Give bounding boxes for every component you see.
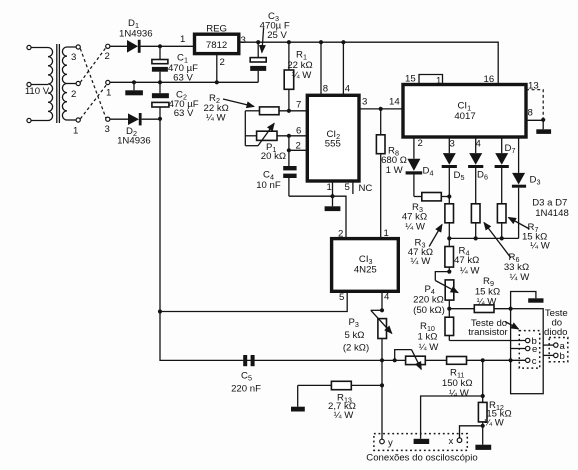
wire pin6 to pin2 link bbox=[288, 136, 290, 151]
regulator REG 7812 bbox=[180, 24, 246, 68]
input terminal 2 bbox=[105, 44, 110, 62]
svg-text:¼ W: ¼ W bbox=[510, 272, 531, 283]
svg-text:Conexões do osciloscópio: Conexões do osciloscópio bbox=[366, 452, 477, 463]
svg-text:D4: D4 bbox=[423, 166, 434, 178]
node R3 D5 junction bbox=[447, 194, 451, 198]
svg-text:(2 kΩ): (2 kΩ) bbox=[343, 343, 369, 354]
svg-text:47 kΩ: 47 kΩ bbox=[454, 255, 479, 266]
svg-text:1N4936: 1N4936 bbox=[117, 136, 151, 147]
wire to osc ground bbox=[421, 396, 483, 439]
wire C4 to CI3 pin2 bbox=[289, 196, 346, 238]
transformer T1 secondary winding bbox=[62, 47, 76, 120]
wire D4 to R3 bbox=[414, 196, 422, 198]
wire CI3 pin4 bbox=[381, 291, 383, 310]
svg-text:1: 1 bbox=[384, 228, 389, 239]
svg-text:5 kΩ: 5 kΩ bbox=[345, 330, 365, 341]
wire P3 to terminal y bbox=[381, 360, 383, 439]
wire R12 branch bbox=[482, 360, 484, 402]
svg-text:1: 1 bbox=[73, 126, 78, 137]
wire D2 to C2 node bbox=[142, 118, 160, 120]
capacitor C3 bbox=[250, 11, 290, 82]
node rail pin4 bbox=[341, 40, 345, 44]
svg-text:3: 3 bbox=[362, 97, 367, 108]
svg-text:4: 4 bbox=[384, 292, 390, 303]
svg-text:¼ W: ¼ W bbox=[419, 342, 440, 353]
capacitor C1 bbox=[152, 46, 198, 83]
svg-text:1 kΩ: 1 kΩ bbox=[418, 332, 438, 343]
svg-text:1: 1 bbox=[180, 34, 185, 45]
wire test loop rectangle bbox=[511, 309, 544, 394]
svg-text:2: 2 bbox=[220, 57, 225, 68]
arrow R7 label to body bbox=[509, 218, 530, 230]
ground G3 bbox=[536, 120, 551, 134]
wire CI2 pin4 to rail bbox=[342, 42, 344, 95]
ground G7 bbox=[475, 445, 491, 450]
svg-text:¼ W: ¼ W bbox=[477, 296, 498, 307]
node C2 bottom junction bbox=[158, 117, 162, 121]
dashed wire tap1 to terminal1 bbox=[80, 85, 106, 119]
optocoupler CI3 4N25 bbox=[332, 228, 399, 303]
wire terminal x bbox=[460, 426, 483, 438]
node 555 pin1 junction bbox=[330, 194, 334, 198]
terminal c bbox=[526, 356, 537, 367]
wire pin2 stub bbox=[289, 149, 307, 151]
svg-text:220 nF: 220 nF bbox=[231, 384, 261, 395]
terminal a bbox=[554, 341, 566, 352]
node rail pin8 bbox=[319, 40, 323, 44]
primary terminal top bbox=[27, 45, 31, 49]
diode D5 bbox=[442, 153, 465, 204]
wire terminal e stub bbox=[511, 348, 526, 350]
svg-text:3: 3 bbox=[71, 52, 76, 63]
wire D1 to REG bbox=[141, 45, 195, 47]
node R12 top junction bbox=[481, 358, 485, 362]
ground G5 bbox=[291, 385, 305, 411]
node rail R1 bbox=[287, 40, 291, 44]
potentiometer P3 bbox=[343, 310, 392, 360]
input terminal 1 bbox=[106, 80, 112, 98]
svg-text:transistor: transistor bbox=[468, 327, 508, 338]
svg-text:e: e bbox=[532, 344, 537, 355]
arrow R6 label to body bbox=[484, 223, 511, 259]
ground G1 bbox=[125, 82, 143, 95]
svg-text:¼ W: ¼ W bbox=[449, 388, 470, 399]
terminal y bbox=[380, 437, 393, 448]
wire CI3 pin5 bbox=[160, 291, 347, 311]
svg-text:13: 13 bbox=[528, 81, 539, 92]
wire R2 P1 left link bbox=[244, 111, 246, 146]
svg-text:4N25: 4N25 bbox=[354, 265, 377, 276]
node ground-bus tap bbox=[132, 80, 136, 84]
resistor R10 bbox=[418, 309, 454, 353]
capacitor C4 bbox=[256, 150, 296, 196]
svg-text:D5: D5 bbox=[454, 170, 465, 182]
svg-text:3: 3 bbox=[105, 124, 110, 135]
svg-text:2: 2 bbox=[71, 89, 76, 100]
svg-text:10 nF: 10 nF bbox=[256, 180, 281, 191]
wire terminal2 to D1 bbox=[110, 45, 127, 47]
wire CI2 pin5 NC stub bbox=[352, 181, 354, 194]
node REG pin2 junction bbox=[215, 80, 219, 84]
node c wire junction bbox=[509, 358, 513, 362]
primary terminal bottom bbox=[27, 118, 31, 122]
wire CI2 pin8 to rail bbox=[320, 42, 322, 95]
resistor R6 bbox=[471, 204, 530, 283]
capacitor C2 bbox=[152, 82, 199, 119]
svg-text:7812: 7812 bbox=[206, 40, 227, 51]
wire REG pin2 to ground bus bbox=[216, 54, 218, 83]
svg-text:¼ W: ¼ W bbox=[334, 410, 355, 421]
svg-text:2: 2 bbox=[105, 51, 110, 62]
diode D7 bbox=[495, 153, 509, 204]
svg-text:¼ W: ¼ W bbox=[411, 256, 432, 267]
wire CI1 pin3 stub bbox=[449, 137, 455, 153]
svg-text:D6: D6 bbox=[477, 170, 488, 182]
terminal b bbox=[526, 336, 537, 347]
svg-text:7: 7 bbox=[296, 100, 301, 111]
node pin8 ground junction bbox=[541, 118, 545, 122]
svg-text:110 V: 110 V bbox=[25, 86, 50, 97]
svg-text:¼ W: ¼ W bbox=[484, 418, 505, 429]
potentiometer P1 bbox=[245, 123, 307, 162]
node bus R7 bbox=[500, 236, 504, 240]
diode test socket dashed box bbox=[549, 338, 568, 362]
primary terminal middle bbox=[27, 82, 31, 86]
svg-text:c: c bbox=[532, 356, 537, 367]
counter IC CI1 4017 bbox=[403, 85, 526, 138]
resistor R2 bbox=[204, 93, 308, 124]
svg-text:diodo: diodo bbox=[544, 327, 567, 338]
wire CI1 pin2 stub bbox=[414, 137, 423, 159]
wire CI1 pin8 to ground bbox=[526, 108, 543, 121]
wire 555 pin1 bbox=[332, 181, 334, 196]
svg-text:3: 3 bbox=[241, 35, 246, 46]
node C1 top junction bbox=[158, 44, 162, 48]
wire R12 to ground bbox=[482, 426, 484, 445]
svg-text:4017: 4017 bbox=[454, 111, 475, 122]
svg-text:63 V: 63 V bbox=[174, 108, 194, 119]
node pin2 junction bbox=[287, 148, 291, 152]
diode D3 bbox=[512, 173, 541, 239]
wire CI1 D7 stub bbox=[502, 137, 516, 155]
potentiometer P4 bbox=[413, 272, 458, 316]
label D3 a D7 1N4148 bbox=[532, 198, 569, 219]
wire pin3 to CI1 pin14 bbox=[359, 108, 403, 110]
resistor R11 bbox=[442, 357, 473, 400]
svg-text:16: 16 bbox=[484, 74, 495, 85]
svg-text:¼ W: ¼ W bbox=[206, 112, 227, 123]
wire R10 to terminal b bbox=[449, 340, 525, 342]
svg-text:1: 1 bbox=[436, 75, 441, 86]
svg-text:REG: REG bbox=[206, 24, 227, 35]
resistor R4 bbox=[445, 238, 480, 276]
terminal e bbox=[526, 344, 538, 355]
wire terminal b diode stub bbox=[543, 354, 553, 356]
svg-text:5: 5 bbox=[339, 292, 344, 303]
svg-text:b: b bbox=[560, 351, 565, 362]
node rail C3 bbox=[256, 40, 260, 44]
resistor R9 bbox=[449, 276, 510, 313]
wire terminal3 to D2 bbox=[110, 118, 128, 120]
svg-text:C5: C5 bbox=[241, 370, 252, 382]
wire main signal line bbox=[243, 359, 525, 361]
svg-text:15: 15 bbox=[405, 74, 416, 85]
capacitor C5 bbox=[231, 355, 261, 395]
resistor R8 bbox=[376, 109, 407, 239]
svg-text:(50 kΩ): (50 kΩ) bbox=[413, 305, 445, 316]
svg-text:y: y bbox=[388, 437, 393, 448]
svg-text:1N4936: 1N4936 bbox=[119, 29, 153, 40]
node osc ground junction bbox=[481, 394, 485, 398]
arrow R3b label to body bbox=[429, 225, 442, 247]
trimmer pot body bbox=[395, 350, 426, 370]
svg-text:8: 8 bbox=[323, 84, 328, 95]
svg-text:P3: P3 bbox=[349, 317, 359, 329]
node bus R3b bbox=[447, 236, 451, 240]
node C1 bottom junction bbox=[158, 80, 162, 84]
wire CI1 pin4 stub bbox=[476, 137, 482, 153]
svg-text:¼ W: ¼ W bbox=[530, 240, 551, 251]
svg-text:¼ W: ¼ W bbox=[460, 266, 481, 277]
svg-text:NC: NC bbox=[359, 183, 373, 194]
transistor test socket dashed box bbox=[519, 331, 539, 369]
svg-text:2: 2 bbox=[418, 138, 423, 149]
input terminal 3 bbox=[105, 117, 110, 135]
svg-text:3: 3 bbox=[450, 139, 455, 150]
node R13 junction bbox=[380, 383, 384, 387]
svg-text:6: 6 bbox=[296, 126, 301, 137]
svg-text:1 W: 1 W bbox=[386, 165, 404, 176]
node R9 left junction bbox=[447, 307, 451, 311]
diode D4 bbox=[406, 159, 434, 197]
node pin5 left junction bbox=[158, 309, 162, 313]
node main P3 junction bbox=[380, 358, 384, 362]
ground G4 bbox=[528, 298, 543, 302]
arrow R2 label to body bbox=[223, 99, 254, 107]
arrow C3 label to body bbox=[262, 28, 264, 53]
svg-text:20 kΩ: 20 kΩ bbox=[261, 151, 286, 162]
wire CI1 pin15-1 loop bbox=[405, 74, 443, 87]
svg-text:1: 1 bbox=[327, 182, 332, 193]
node P3 wiper junction bbox=[380, 308, 384, 312]
svg-text:¼ W: ¼ W bbox=[405, 222, 426, 233]
svg-text:4: 4 bbox=[345, 84, 351, 95]
svg-text:1N4148: 1N4148 bbox=[535, 208, 569, 219]
resistor R7 bbox=[497, 204, 550, 252]
diode D1 bbox=[119, 18, 153, 53]
label Teste do diodo bbox=[544, 308, 568, 338]
svg-text:¼ W: ¼ W bbox=[292, 70, 313, 81]
svg-text:2: 2 bbox=[338, 229, 343, 240]
dashed wire tap2 to terminal2 bbox=[80, 48, 105, 82]
ground G6 bbox=[414, 439, 430, 444]
transformer T1 core bbox=[57, 44, 60, 123]
terminal x bbox=[449, 436, 462, 447]
node pin6 junction bbox=[287, 134, 291, 138]
node x wire junction bbox=[481, 424, 485, 428]
svg-text:2: 2 bbox=[296, 140, 301, 151]
resistor R12 bbox=[478, 400, 511, 429]
secondary tap 2 bbox=[71, 81, 80, 100]
svg-text:25 V: 25 V bbox=[267, 30, 287, 41]
node R1 pin7 junction bbox=[287, 109, 291, 113]
svg-text:8: 8 bbox=[528, 108, 533, 119]
node R9 loop junction bbox=[509, 307, 513, 311]
diode D6 bbox=[468, 153, 488, 204]
wire CI1 D3 stub bbox=[518, 137, 520, 173]
node bus R6 bbox=[474, 236, 478, 240]
arrow teste transistor bbox=[505, 322, 519, 330]
wire long vertical to bottom bus bbox=[160, 119, 243, 361]
op IC CI2 555 bbox=[296, 84, 373, 194]
wire terminal a stub bbox=[543, 344, 553, 346]
oscilloscope dashed box bbox=[374, 434, 467, 451]
ground G2 bbox=[325, 196, 341, 211]
wire loop to ground G4 bbox=[511, 292, 536, 309]
svg-text:5: 5 bbox=[345, 182, 350, 193]
svg-text:D3: D3 bbox=[530, 175, 541, 187]
wire ground bus bbox=[110, 81, 258, 83]
svg-text:4: 4 bbox=[476, 139, 482, 150]
resistor R3 bbox=[402, 193, 449, 233]
node pot wiper junction bbox=[393, 358, 397, 362]
svg-text:1: 1 bbox=[106, 88, 111, 99]
label Teste do transistor bbox=[468, 318, 508, 338]
wire +12V rail to CI1 pin16 bbox=[239, 42, 498, 84]
node R8 junction bbox=[379, 107, 383, 111]
dashed wire tap3 to terminal3 bbox=[80, 49, 106, 119]
transformer T1 primary winding bbox=[31, 48, 53, 121]
diode D2 bbox=[117, 113, 151, 147]
svg-text:555: 555 bbox=[325, 139, 341, 150]
secondary tap 1 bbox=[73, 118, 80, 137]
resistor R1 bbox=[284, 42, 312, 111]
node P4 top junction bbox=[447, 270, 451, 274]
secondary tap 3 bbox=[71, 45, 80, 63]
terminal b2 bbox=[554, 351, 565, 362]
resistor R3b bbox=[408, 204, 454, 267]
svg-text:x: x bbox=[449, 436, 454, 447]
resistor R13 bbox=[298, 381, 382, 421]
wire cathode bus bbox=[449, 237, 518, 239]
svg-text:14: 14 bbox=[389, 97, 400, 108]
wire CI1 pin13 dashed bbox=[526, 81, 543, 120]
